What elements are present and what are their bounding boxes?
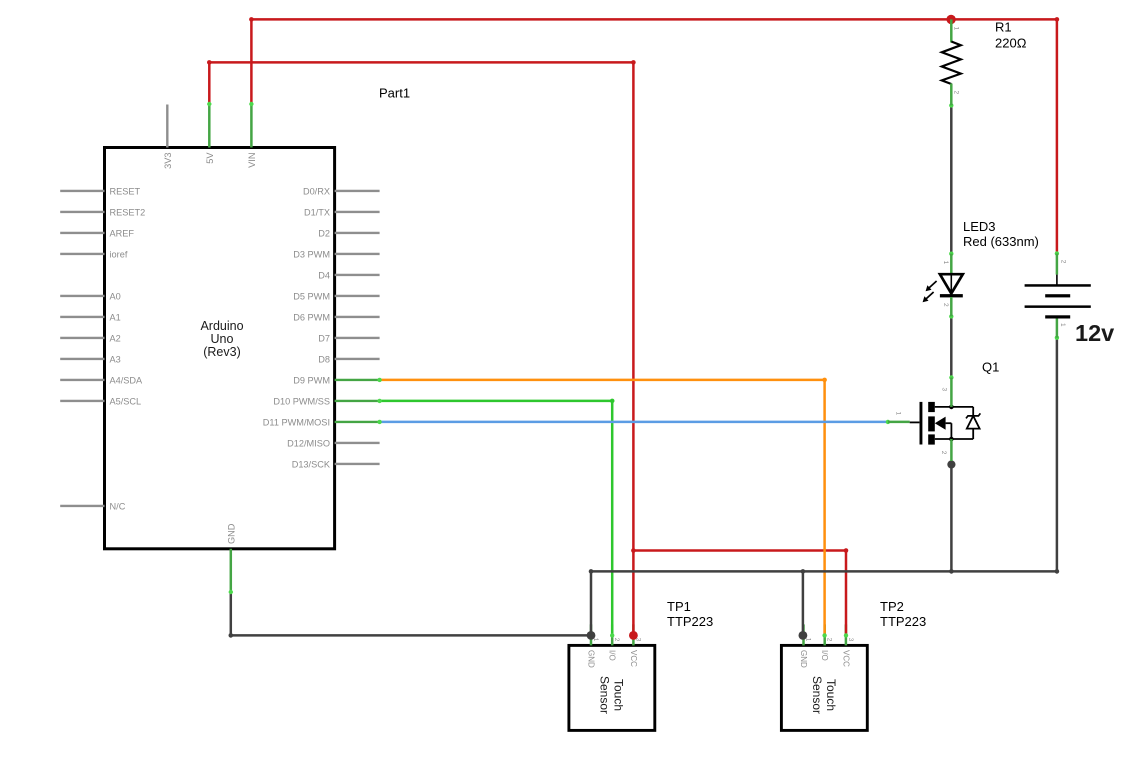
svg-text:D4: D4 bbox=[318, 270, 330, 280]
U1 pin D12/MISO bbox=[287, 438, 379, 448]
U1 pin D3 PWM bbox=[293, 249, 379, 259]
svg-text:2: 2 bbox=[953, 91, 960, 95]
U1 pin 3V3 bbox=[163, 105, 173, 169]
wire endpoint bbox=[1055, 336, 1059, 340]
svg-text:D1/TX: D1/TX bbox=[304, 207, 330, 217]
wire endpoint bbox=[822, 633, 826, 637]
svg-text:TTP223: TTP223 bbox=[880, 614, 926, 629]
junction TP2 GND node bbox=[799, 631, 808, 640]
Q1 drain leg pin 3 bbox=[950, 378, 953, 407]
wire endpoint bbox=[949, 375, 953, 379]
Q1 gate bar bbox=[920, 402, 923, 445]
TP2 pin I/O bbox=[823, 624, 826, 645]
U1 pin D1/TX bbox=[304, 207, 380, 217]
U1 pin D6 PWM bbox=[293, 312, 379, 322]
U1 pin A3 bbox=[60, 354, 121, 364]
wire bend/junction bbox=[207, 60, 212, 65]
svg-text:2: 2 bbox=[940, 451, 947, 455]
wire bend/junction bbox=[631, 548, 636, 553]
U1 pin D2 bbox=[318, 228, 379, 238]
Q1 drain line bbox=[935, 406, 973, 408]
svg-text:D5 PWM: D5 PWM bbox=[293, 291, 330, 301]
svg-text:5V: 5V bbox=[205, 152, 215, 164]
U1 pin D11 PWM/MOSI bbox=[263, 417, 380, 427]
wire endpoint bbox=[949, 103, 953, 107]
svg-text:GND: GND bbox=[799, 650, 808, 668]
wire Q1 source to ground rail (dark) bbox=[950, 461, 953, 571]
svg-text:Touch: Touch bbox=[824, 679, 838, 711]
wire D9 to TP2 I/O (orange) bbox=[380, 380, 825, 636]
svg-text:1: 1 bbox=[942, 261, 949, 265]
svg-text:2: 2 bbox=[1060, 260, 1067, 264]
svg-text:D6 PWM: D6 PWM bbox=[293, 312, 330, 322]
svg-text:A4/SDA: A4/SDA bbox=[110, 375, 144, 385]
svg-text:2: 2 bbox=[613, 638, 620, 642]
svg-text:220Ω: 220Ω bbox=[995, 36, 1027, 51]
svg-text:ioref: ioref bbox=[110, 249, 128, 259]
svg-text:TTP223: TTP223 bbox=[667, 614, 713, 629]
wire endpoint bbox=[844, 633, 848, 637]
wire rail to TP2 GND (dark) bbox=[802, 571, 805, 635]
svg-text:A3: A3 bbox=[110, 354, 121, 364]
wire bend/junction bbox=[229, 633, 234, 638]
U1 pin D0/RX bbox=[303, 186, 380, 196]
svg-text:RESET2: RESET2 bbox=[110, 207, 146, 217]
svg-text:D9 PWM: D9 PWM bbox=[293, 375, 330, 385]
label TP1 TTP223 bbox=[667, 599, 713, 629]
svg-text:3: 3 bbox=[940, 388, 947, 392]
junction R1 pin1 node bbox=[946, 15, 955, 24]
svg-text:Uno: Uno bbox=[211, 332, 234, 346]
Q1 source leg pin 2 bbox=[950, 439, 953, 461]
svg-text:(Rev3): (Rev3) bbox=[203, 345, 241, 359]
wire endpoint bbox=[229, 590, 233, 594]
wire endpoint bbox=[1055, 251, 1059, 255]
svg-text:D12/MISO: D12/MISO bbox=[287, 438, 330, 448]
U1 pin D8 bbox=[318, 354, 379, 364]
LED3 light arrow 2 bbox=[926, 292, 934, 299]
wire D11 to Q1 gate (blue) bbox=[380, 421, 888, 424]
svg-text:D8: D8 bbox=[318, 354, 330, 364]
wire bend/junction bbox=[844, 548, 849, 553]
resistor R1 bbox=[942, 19, 1027, 105]
U1 pin AREF bbox=[60, 228, 134, 238]
junction TP1 GND node bbox=[587, 631, 596, 640]
U1 pin D4 bbox=[318, 270, 379, 280]
svg-text:3V3: 3V3 bbox=[163, 153, 173, 169]
touch sensor TP2 TTP223 bbox=[781, 624, 867, 730]
wire endpoint bbox=[377, 420, 381, 424]
wire endpoint bbox=[207, 102, 211, 106]
svg-text:LED3: LED3 bbox=[963, 219, 996, 234]
TP1 pin VCC bbox=[632, 624, 635, 645]
wire VIN to R1 (red) bbox=[251, 19, 951, 104]
Q1 source line bbox=[935, 438, 973, 440]
svg-text:GND: GND bbox=[586, 650, 595, 668]
wire TP1 VCC to TP2 VCC (red) bbox=[633, 551, 846, 636]
svg-text:RESET: RESET bbox=[110, 186, 141, 196]
label Touch Sensor bbox=[810, 676, 838, 714]
wire endpoint bbox=[610, 633, 614, 637]
svg-text:D7: D7 bbox=[318, 333, 330, 343]
touch sensor TP1 TTP223 bbox=[569, 624, 655, 730]
junction TP1 VCC node bbox=[629, 631, 638, 640]
wire Arduino GND to TP1 GND (dark) bbox=[231, 592, 591, 635]
TP1 pin I/O bbox=[611, 624, 614, 645]
Arduino Uno Part1 bbox=[60, 86, 410, 593]
svg-text:Red (633nm): Red (633nm) bbox=[963, 234, 1039, 249]
wire battery - down (dark) bbox=[1056, 338, 1059, 572]
U1 pin RESET2 bbox=[60, 207, 145, 217]
U1 pin D13/SCK bbox=[292, 459, 380, 469]
wire bend/junction bbox=[589, 569, 594, 574]
wire endpoint bbox=[949, 252, 953, 256]
U1 pin N/C bbox=[60, 501, 125, 511]
U1 pin D7 bbox=[318, 333, 379, 343]
label TP2 TTP223 bbox=[880, 599, 926, 629]
svg-text:A2: A2 bbox=[110, 333, 121, 343]
svg-text:D0/RX: D0/RX bbox=[303, 186, 330, 196]
svg-text:Arduino: Arduino bbox=[200, 319, 243, 333]
U1 pin 5V bbox=[205, 104, 215, 164]
svg-text:AREF: AREF bbox=[110, 228, 135, 238]
svg-text:1: 1 bbox=[953, 27, 960, 31]
junction Q1 source node bbox=[947, 460, 955, 468]
wire rail to TP1 GND (dark) bbox=[590, 571, 593, 635]
Q1 channel bars bbox=[928, 402, 935, 412]
svg-text:A0: A0 bbox=[110, 291, 121, 301]
U1 pin D9 PWM bbox=[293, 375, 379, 385]
svg-text:D10 PWM/SS: D10 PWM/SS bbox=[273, 396, 330, 406]
svg-text:I/O: I/O bbox=[820, 650, 829, 661]
wire bend/junction bbox=[949, 569, 954, 574]
wire ground rail (dark) bbox=[591, 570, 1057, 573]
svg-text:D13/SCK: D13/SCK bbox=[292, 459, 331, 469]
TP2 pin GND bbox=[802, 624, 805, 645]
svg-text:VIN: VIN bbox=[247, 153, 257, 168]
U1 pin ioref bbox=[60, 249, 128, 259]
U1 pin D10 PWM/SS bbox=[273, 396, 379, 406]
U1 pin A4/SDA bbox=[60, 375, 143, 385]
wire R1 to battery + (red) bbox=[951, 19, 1057, 253]
svg-text:2: 2 bbox=[826, 638, 833, 642]
svg-text:Sensor: Sensor bbox=[597, 676, 611, 714]
LED3 light arrow 1 bbox=[929, 281, 937, 288]
wire endpoint bbox=[949, 314, 953, 318]
wire bend/junction bbox=[1055, 569, 1060, 574]
TP2 pin VCC bbox=[845, 624, 848, 645]
label Touch Sensor bbox=[597, 676, 625, 714]
wire endpoint bbox=[377, 378, 381, 382]
wire bend/junction bbox=[1055, 17, 1060, 22]
U1 pin RESET bbox=[60, 186, 140, 196]
svg-text:D2: D2 bbox=[318, 228, 330, 238]
wire bend/junction bbox=[822, 378, 827, 383]
svg-text:A1: A1 bbox=[110, 312, 121, 322]
svg-text:TP2: TP2 bbox=[880, 599, 904, 614]
svg-text:GND: GND bbox=[226, 523, 236, 544]
Q1 body diode bbox=[972, 407, 974, 416]
wire LED3 to Q1 drain (dark) bbox=[950, 316, 953, 377]
svg-text:VCC: VCC bbox=[841, 650, 850, 667]
U1 pin A1 bbox=[60, 312, 121, 322]
TP1 pin GND bbox=[590, 624, 593, 645]
Q1 gate leg bbox=[888, 421, 910, 424]
svg-text:VCC: VCC bbox=[629, 650, 638, 667]
U1 pin VIN bbox=[247, 104, 257, 168]
svg-text:D11 PWM/MOSI: D11 PWM/MOSI bbox=[263, 417, 330, 427]
wire endpoint bbox=[377, 399, 381, 403]
svg-text:1: 1 bbox=[1059, 323, 1066, 327]
LED LED3 bbox=[923, 219, 1039, 316]
svg-text:Q1: Q1 bbox=[982, 360, 999, 375]
svg-text:R1: R1 bbox=[995, 20, 1012, 35]
wire bend/junction bbox=[631, 60, 636, 65]
U1 pin GND bbox=[226, 523, 236, 592]
svg-text:N/C: N/C bbox=[110, 501, 126, 511]
svg-text:Touch: Touch bbox=[611, 679, 625, 711]
wire R1 to LED3 (dark) bbox=[950, 105, 953, 253]
svg-text:2: 2 bbox=[942, 303, 949, 307]
transistor Q1 (n-MOSFET) bbox=[888, 360, 999, 462]
svg-text:1: 1 bbox=[895, 412, 902, 416]
U1 pin A0 bbox=[60, 291, 121, 301]
wire endpoint bbox=[249, 102, 253, 106]
Q1 body arrow bbox=[935, 417, 946, 430]
svg-text:TP1: TP1 bbox=[667, 599, 691, 614]
U1 pin D5 PWM bbox=[293, 291, 379, 301]
wire bend/junction bbox=[249, 17, 254, 22]
wire 5V to TP1 VCC (red) bbox=[209, 62, 633, 635]
svg-text:A5/SCL: A5/SCL bbox=[110, 396, 142, 406]
wire endpoint bbox=[886, 420, 890, 424]
wire bend/junction bbox=[801, 569, 806, 574]
U1 pin A5/SCL bbox=[60, 396, 141, 406]
svg-text:3: 3 bbox=[847, 638, 854, 642]
svg-text:12v: 12v bbox=[1075, 320, 1114, 346]
svg-text:Sensor: Sensor bbox=[810, 676, 824, 714]
svg-text:I/O: I/O bbox=[608, 650, 617, 661]
wire bend/junction bbox=[610, 399, 615, 404]
battery 12v bbox=[1025, 254, 1115, 347]
svg-text:Part1: Part1 bbox=[379, 86, 410, 101]
U1 pin A2 bbox=[60, 333, 121, 343]
svg-text:D3 PWM: D3 PWM bbox=[293, 249, 330, 259]
wire D10 to TP1 I/O (green) bbox=[380, 401, 613, 636]
